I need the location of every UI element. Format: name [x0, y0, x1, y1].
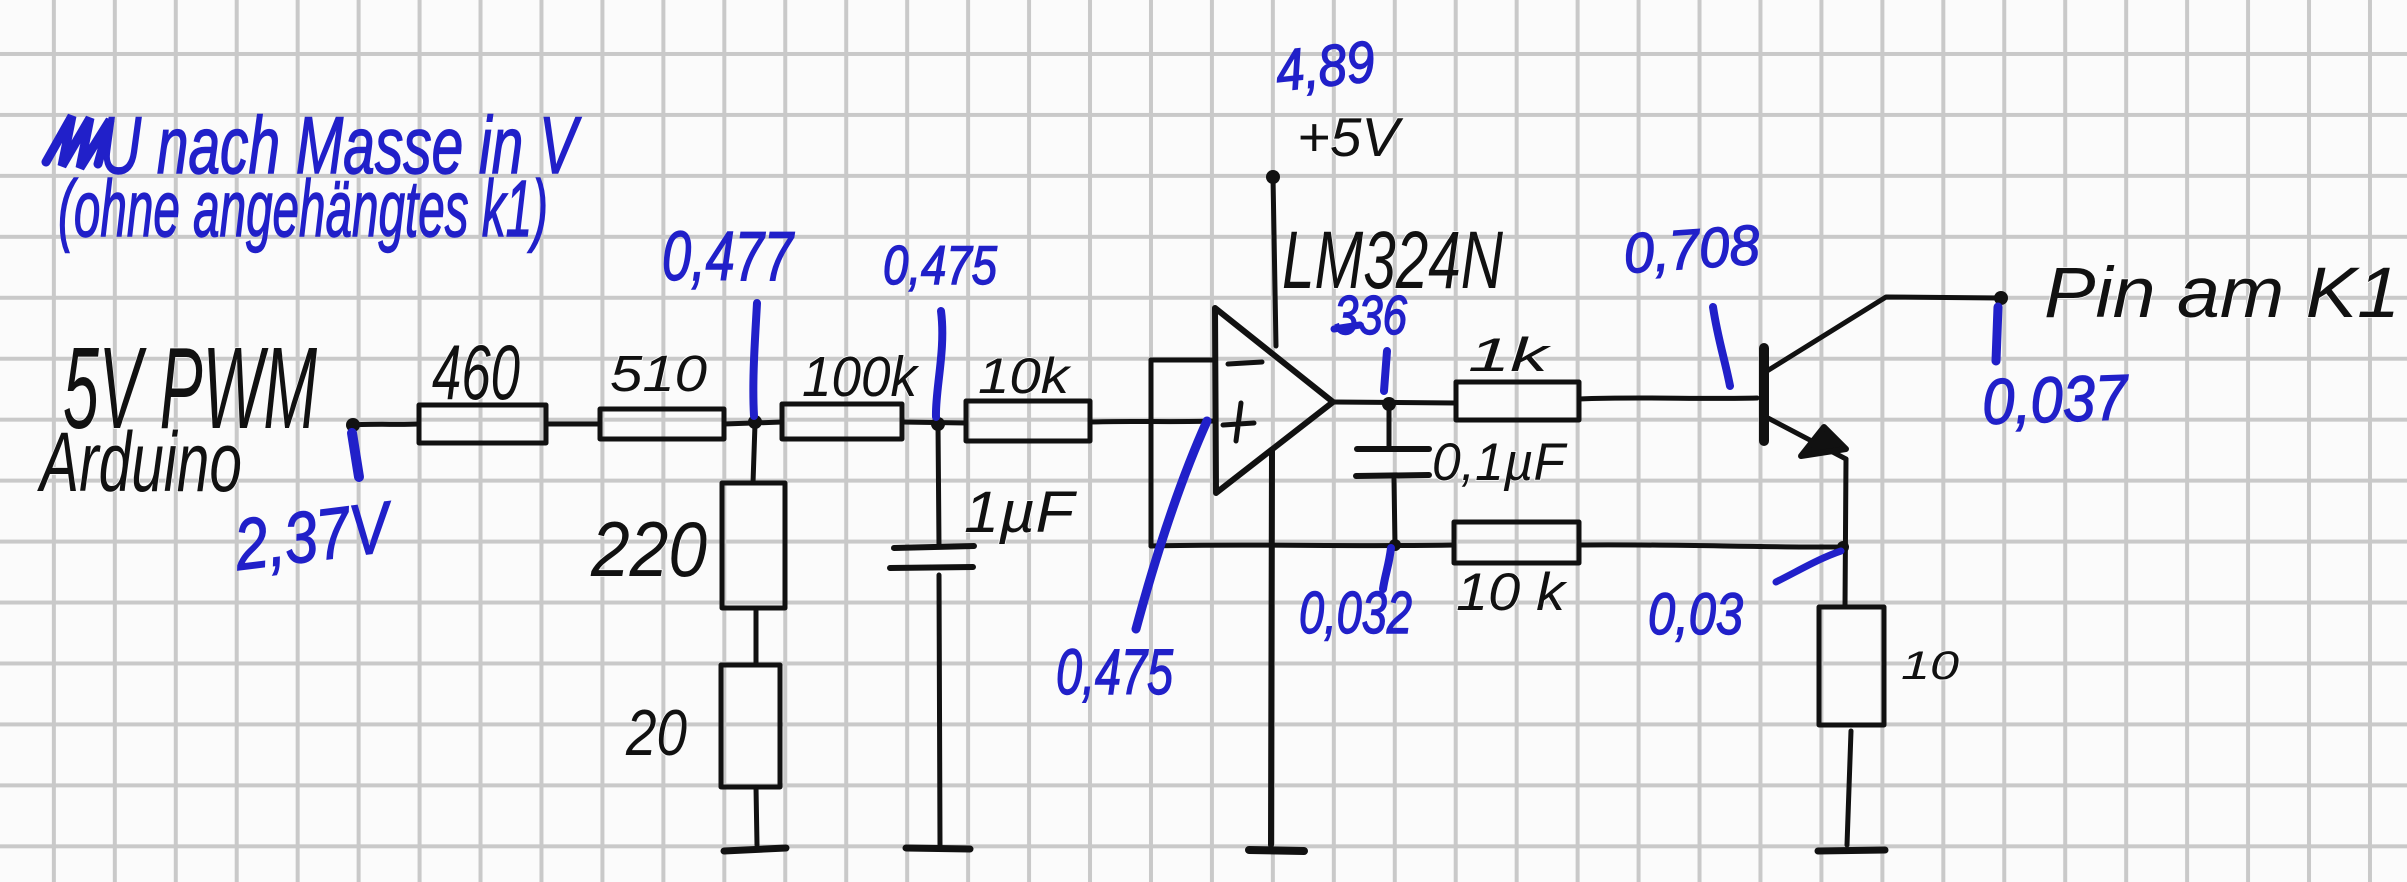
svg-text:100k: 100k: [802, 345, 919, 409]
svg-text:Pin am K1: Pin am K1: [2044, 254, 2400, 333]
svg-text:1µF: 1µF: [964, 480, 1078, 545]
svg-text:Arduino: Arduino: [37, 415, 242, 509]
svg-text:220: 220: [590, 505, 707, 593]
svg-text:0,03: 0,03: [1648, 582, 1743, 647]
svg-text:20: 20: [625, 696, 687, 769]
svg-text:10 k: 10 k: [1456, 563, 1568, 622]
svg-text:336: 336: [1334, 284, 1407, 346]
svg-text:4,89: 4,89: [1273, 29, 1378, 104]
svg-text:0,1µF: 0,1µF: [1432, 433, 1568, 492]
svg-text:0,708: 0,708: [1622, 213, 1762, 285]
svg-text:0,032: 0,032: [1299, 580, 1412, 646]
svg-text:0,475: 0,475: [1056, 636, 1173, 708]
svg-text:10: 10: [1901, 644, 1959, 688]
svg-text:1k: 1k: [1468, 328, 1552, 381]
svg-text:0,477: 0,477: [662, 217, 795, 295]
svg-text:10k: 10k: [978, 348, 1072, 404]
svg-text:0,037: 0,037: [1981, 361, 2131, 438]
svg-text:510: 510: [610, 345, 707, 402]
svg-text:+5V: +5V: [1297, 106, 1403, 168]
svg-text:0,475: 0,475: [883, 234, 997, 296]
svg-text:(ohne angehängtes k1): (ohne angehängtes k1): [58, 164, 548, 253]
svg-text:460: 460: [432, 328, 520, 416]
